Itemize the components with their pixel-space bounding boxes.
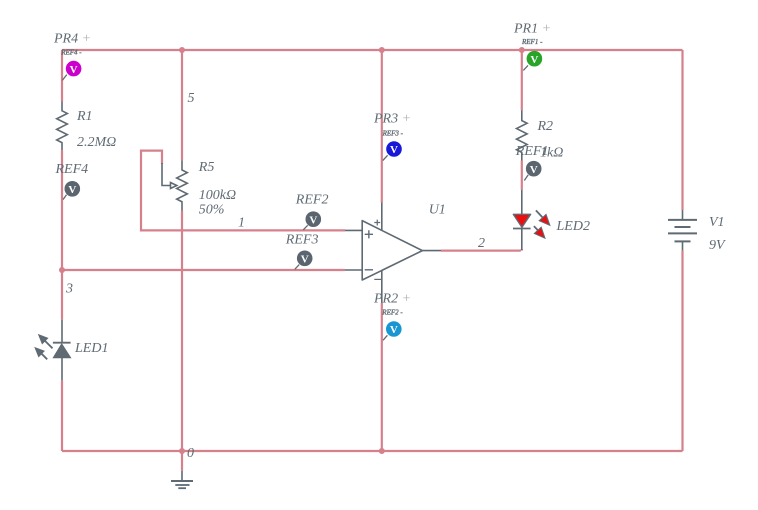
svg-text:V: V — [530, 54, 538, 66]
probe REF2 (gray reference probe) — [303, 211, 321, 229]
wire: left rail top segment — [61, 50, 63, 102]
wire: right rail top (to battery V1) — [681, 50, 683, 210]
svg-text:REF1 -: REF1 - — [521, 38, 543, 46]
resistor R1 — [57, 102, 68, 151]
wire: left rail lower segment (node 3 to LED1) — [61, 270, 63, 320]
svg-text:R1: R1 — [76, 109, 93, 124]
svg-text:V: V — [70, 64, 78, 76]
potentiometer R5 — [162, 160, 187, 210]
svg-text:PR4 +: PR4 + — [53, 32, 91, 47]
svg-text:V: V — [390, 324, 398, 336]
svg-text:REF1: REF1 — [515, 144, 549, 159]
svg-text:V: V — [530, 164, 538, 176]
junction: node 3 on left rail — [59, 267, 65, 273]
svg-text:V: V — [68, 184, 76, 196]
LED LED2 — [513, 190, 550, 250]
svg-text:2: 2 — [478, 236, 485, 251]
probe PR2 (cyan voltage probe) — [383, 321, 402, 340]
svg-text:50%: 50% — [199, 203, 225, 218]
op-amp U1 — [345, 203, 441, 303]
wire: left rail mid segment (R1 to node 3) — [61, 150, 63, 270]
probe PR3 (blue voltage probe) — [383, 141, 402, 160]
wire: R5 column bottom (R5 to bottom rail) — [181, 211, 183, 452]
svg-text:U1: U1 — [429, 203, 446, 218]
svg-text:1: 1 — [238, 216, 245, 231]
wire: right rail bottom (battery to bottom rail) — [681, 250, 683, 451]
junction: bottom rail x op-amp column — [379, 448, 385, 454]
svg-text:REF4 -: REF4 - — [60, 49, 82, 57]
wire: net 2 (op-amp output to LED2) — [441, 249, 522, 251]
junction: top rail x R2 column — [519, 47, 525, 53]
svg-text:9V: 9V — [709, 238, 726, 253]
svg-text:PR2 +: PR2 + — [373, 292, 411, 307]
wire: op-amp V- to bottom rail column — [381, 303, 383, 451]
svg-text:V: V — [309, 214, 317, 226]
svg-text:100kΩ: 100kΩ — [199, 188, 236, 203]
probe PR4 (magenta voltage probe) — [62, 61, 81, 81]
svg-text:REF2: REF2 — [295, 192, 329, 207]
svg-text:0: 0 — [187, 446, 194, 461]
svg-text:REF2 -: REF2 - — [381, 309, 403, 317]
wire: net 3 (node 3 to op-amp - input) — [62, 269, 345, 271]
wire: bottom rail net 0 — [62, 450, 683, 452]
wire: top rail net — [62, 49, 683, 51]
junction: top rail x net 5 — [179, 47, 185, 53]
svg-text:LED2: LED2 — [556, 219, 590, 234]
svg-text:2.2MΩ: 2.2MΩ — [77, 135, 116, 150]
probe REF4 (gray reference probe) — [63, 181, 80, 200]
svg-text:PR1 +: PR1 + — [513, 22, 551, 37]
ground — [171, 453, 193, 488]
wire: R2 to LED2 segment — [521, 161, 523, 190]
wire: R2 column top (top rail to R2) — [521, 50, 523, 110]
probe REF1 (gray reference probe) — [524, 161, 541, 181]
wire: left rail bottom segment (LED1 to bottom) — [61, 380, 63, 451]
svg-text:3: 3 — [65, 282, 73, 297]
junction: top rail x op-amp supply column — [379, 47, 385, 53]
wire: net 1 (R5 wiper to op-amp + input) — [141, 151, 345, 231]
svg-text:PR3 +: PR3 + — [373, 112, 411, 127]
battery V1 — [668, 210, 697, 250]
svg-text:V: V — [390, 144, 398, 156]
resistor R2 — [517, 110, 528, 160]
svg-text:REF4: REF4 — [55, 162, 89, 177]
svg-text:V1: V1 — [709, 215, 725, 230]
svg-text:V: V — [301, 254, 309, 266]
svg-text:LED1: LED1 — [74, 341, 108, 356]
svg-text:R2: R2 — [537, 119, 554, 134]
svg-text:R5: R5 — [198, 160, 215, 175]
wire: op-amp V+ supply column — [381, 50, 383, 203]
junction: bottom rail x ground column — [179, 448, 185, 454]
LED LED1 — [34, 320, 70, 381]
svg-text:REF3: REF3 — [285, 232, 319, 247]
probe REF3 (gray reference probe) — [295, 250, 313, 269]
wire: net 5 column top (top rail to R5) — [181, 50, 183, 160]
svg-text:REF3 -: REF3 - — [382, 130, 404, 138]
svg-text:5: 5 — [188, 91, 195, 106]
probe PR1 (green voltage probe) — [523, 51, 542, 71]
